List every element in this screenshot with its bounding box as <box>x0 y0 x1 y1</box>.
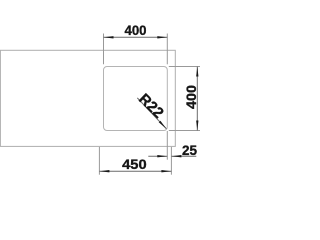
arrow right (450) <box>161 170 171 172</box>
extension line top-left (400 width) <box>103 34 105 65</box>
arrow down (400 right) <box>196 121 198 131</box>
extension line right-bottom (400 height) <box>169 130 200 132</box>
R22 leader line <box>137 98 166 129</box>
sink bowl outline R22 <box>104 67 168 131</box>
arrow right (400 top) <box>157 36 167 38</box>
extension line bottom-right (450/25 shared) <box>170 147 172 175</box>
svg-text:25: 25 <box>182 142 197 158</box>
extension line 25 left (from bowl corner) <box>166 131 168 160</box>
dimension line 450 bottom <box>99 170 171 172</box>
R22 leader arrowhead <box>159 121 167 129</box>
svg-text:450: 450 <box>122 156 147 172</box>
extension line right-top (400 height) <box>169 66 200 68</box>
svg-text:400: 400 <box>125 22 147 38</box>
arrow up (400 right) <box>196 67 198 77</box>
extension line bottom-left (450 width) <box>98 147 100 175</box>
dimension line 400 right <box>196 67 198 131</box>
extension line top-right (400 width) <box>166 34 168 65</box>
arrow left (400 top) <box>104 36 114 38</box>
dimension line 25 left segment <box>148 155 167 157</box>
svg-text:R22: R22 <box>135 90 167 121</box>
arrow 25 right (pointing left) <box>171 155 181 157</box>
dimension line 25 right segment <box>171 155 196 157</box>
dimension line 400 top <box>104 36 168 38</box>
arrow 25 left (pointing right) <box>157 155 167 157</box>
arrow left (450) <box>99 170 109 172</box>
countertop outline <box>0 50 175 146</box>
svg-text:400: 400 <box>183 85 199 109</box>
